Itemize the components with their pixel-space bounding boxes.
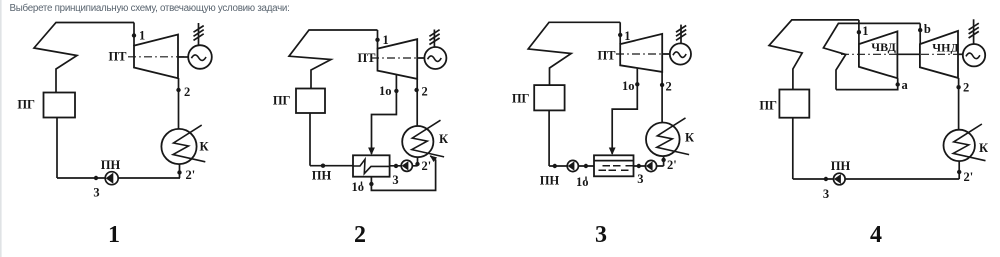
svg-text:a: a: [902, 78, 909, 92]
shaft: turbine to generator (diagram 2): [417, 57, 425, 59]
steam generator ПГ box (diagram 4): [779, 90, 809, 118]
wire: condenser drop leg (diagram 1): [179, 164, 181, 178]
HP turbine ЧВД (diagram 4): [859, 31, 898, 78]
wire: ЧНД exhaust to condenser (diagram 4): [958, 78, 960, 130]
node 1 (diagram 4): [857, 30, 861, 34]
generator (diagram 4): [958, 53, 964, 55]
svg-text:2': 2': [422, 159, 432, 173]
svg-text:ЧВД: ЧВД: [871, 40, 896, 54]
node 3 (diagram 2): [394, 164, 398, 168]
water dashes row 1 (diagram 3): [603, 165, 634, 167]
condenser К (diagram 4): [944, 124, 986, 161]
node 1о' drain (diagram 2): [369, 182, 373, 186]
condensate pump (diagram 3): [645, 160, 656, 171]
svg-text:Выберете принципиальную схему,: Выберете принципиальную схему, отвечающу…: [10, 3, 290, 14]
svg-text:2: 2: [184, 85, 190, 99]
condenser К (diagram 2): [402, 120, 444, 157]
extraction arrowhead into heater (diagram 3): [609, 148, 616, 156]
wire: main steam into ЧВД (diagram 4): [858, 20, 860, 44]
extraction line 1о to open heater (diagram 3): [612, 68, 637, 154]
steam generator ПГ box (diagram 1): [44, 93, 76, 118]
svg-text:1: 1: [139, 29, 145, 43]
open feedwater heater / mixer (diagram 3): [594, 155, 634, 176]
svg-text:2': 2': [964, 170, 974, 184]
feed pump ПН (diagram 3): [567, 160, 578, 171]
node 3 (diagram 3): [637, 164, 641, 168]
svg-text:ПГ: ПГ: [512, 92, 530, 106]
svg-text:2: 2: [666, 80, 672, 94]
node b (diagram 4): [918, 28, 922, 32]
wire: steam line into turbine (diagram 2): [377, 30, 379, 49]
node 1 (diagram 2): [375, 38, 379, 42]
node 3 (diagram 4): [824, 177, 828, 181]
node 2' (diagram 2): [415, 162, 419, 166]
node 2' (diagram 4): [957, 170, 961, 174]
steam generator ПГ box (diagram 3): [534, 85, 564, 110]
svg-text:3: 3: [595, 222, 607, 248]
svg-text:ПН: ПН: [540, 174, 560, 188]
cold reheat line ЧВД exit to reheater (diagram 4): [836, 78, 898, 89]
svg-text:ПГ: ПГ: [17, 98, 35, 112]
svg-text:К: К: [439, 132, 448, 146]
diagram 1: boiler break symbol (zigzag): [34, 23, 134, 93]
node 2 (diagram 2): [414, 88, 418, 92]
wire: ПГ down to feed line (diagram 4): [792, 118, 794, 179]
svg-text:ПГ: ПГ: [273, 94, 291, 108]
node 2' (diagram 1): [177, 170, 181, 174]
shaft centerline (diagram 2): [371, 57, 425, 59]
svg-text:К: К: [200, 140, 209, 154]
reheater break symbol (zigzag, diagram 4): [823, 23, 920, 89]
svg-text:1о: 1о: [379, 84, 392, 98]
wire: hot reheat into ЧНД (diagram 4): [919, 23, 921, 44]
shaft centerline (diagram 4): [841, 53, 964, 55]
node 2' (diagram 3): [661, 158, 665, 162]
node ПН junction (diagram 2): [321, 164, 325, 168]
wire: bottom feed line (diagram 4): [793, 178, 959, 180]
svg-text:4: 4: [870, 222, 882, 248]
svg-text:ЧНД: ЧНД: [932, 41, 959, 55]
svg-text:ПН: ПН: [101, 158, 121, 172]
svg-text:ПТ: ПТ: [108, 50, 127, 64]
feed pump ПН (diagram 4): [834, 173, 846, 185]
node 2 (diagram 4): [956, 85, 960, 89]
node 1о (diagram 3): [635, 82, 639, 86]
shaft: turbine to generator (diagram 3): [662, 53, 670, 55]
svg-text:b: b: [924, 22, 931, 36]
node 3 (diagram 1): [94, 176, 98, 180]
node 2 (diagram 3): [660, 83, 664, 87]
shaft: turbine to generator (diagram 1): [178, 56, 189, 58]
wire: ПГ down to feed line (diagram 2): [309, 113, 311, 166]
generator mount hatching (diagram 4): [969, 19, 979, 44]
shaft centerline (diagram 1): [128, 56, 189, 58]
steam turbine ПТ (diagram 2): [378, 39, 418, 79]
water dashes row 2 (diagram 3): [599, 169, 629, 171]
extraction arrowhead into heater (diagram 2): [368, 148, 375, 156]
svg-text:1: 1: [862, 24, 868, 38]
svg-text:3: 3: [93, 186, 99, 200]
svg-text:2: 2: [354, 222, 366, 248]
svg-text:К: К: [685, 131, 694, 145]
node 1о (diagram 2): [394, 89, 398, 93]
wire: steam line into turbine (diagram 1): [133, 23, 135, 47]
svg-text:3: 3: [637, 172, 643, 186]
diagram 2: boiler break symbol (zigzag): [289, 30, 378, 89]
shaft: ЧВД to ЧНД (diagram 4): [897, 53, 920, 55]
feedwater heater (surface type, diagram 2): [353, 155, 390, 176]
wire: turbine exhaust to condenser (diagram 3): [661, 72, 663, 123]
node 1 (diagram 3): [618, 33, 622, 37]
diagram 3: boiler break symbol (zigzag): [528, 22, 620, 85]
wire: condenser drop leg (diagram 4): [958, 161, 960, 179]
heater drain line to condenser (diagram 2): [371, 156, 435, 191]
svg-text:ПН: ПН: [312, 169, 332, 183]
steam generator ПГ box (diagram 2): [296, 89, 325, 114]
svg-text:1: 1: [383, 33, 389, 47]
generator mount hatching (diagram 1): [194, 23, 204, 45]
generator mount hatching (diagram 3): [676, 25, 686, 44]
steam turbine ПТ (diagram 1): [134, 35, 178, 79]
svg-text:1: 1: [108, 222, 120, 248]
wire: heater outlet to pump (diagram 2): [390, 165, 418, 167]
node before feed pump (diagram 3): [553, 164, 557, 168]
wire: feed line to heater (diagram 2): [310, 165, 353, 167]
steam turbine ПТ (diagram 3): [620, 34, 662, 72]
LP turbine ЧНД (diagram 4): [920, 31, 958, 78]
extraction line 1о from turbine (diagram 2): [372, 75, 397, 154]
node 2 (diagram 1): [176, 88, 180, 92]
wire: ПГ down to feed line (diagram 3): [548, 110, 550, 166]
diagram 4: boiler break symbol (zigzag): [769, 20, 859, 90]
wire: bottom feed line (diagram 1): [57, 177, 180, 179]
svg-text:К: К: [979, 141, 988, 155]
svg-text:1о: 1о: [622, 79, 635, 93]
feed pump ПН (diagram 1): [105, 172, 118, 185]
svg-text:2: 2: [422, 85, 428, 99]
drain arrowhead at condenser (diagram 2): [430, 155, 437, 162]
wire: turbine exhaust to condenser (diagram 2): [416, 79, 418, 126]
wire: ПГ down to feed line (diagram 1): [56, 118, 58, 179]
svg-text:ПГ: ПГ: [759, 99, 777, 113]
wire: condenser drop leg (diagram 2): [417, 157, 419, 166]
svg-text:3: 3: [823, 187, 829, 201]
svg-text:2: 2: [963, 81, 969, 95]
wire: turbine exhaust to condenser (diagram 1): [178, 78, 180, 129]
generator (diagram 2): [424, 47, 446, 69]
wire: heater to condensate pump (diagram 3): [634, 165, 664, 167]
condenser К (diagram 3): [646, 118, 689, 156]
svg-text:ПТ: ПТ: [597, 49, 616, 63]
generator mount hatching (diagram 2): [429, 30, 439, 48]
generator (diagram 3): [670, 43, 691, 64]
node 1 (diagram 1): [132, 33, 136, 37]
condensate pump (diagram 2): [401, 160, 412, 171]
wire: feed line to left pump (diagram 3): [549, 165, 594, 167]
heater internal tube zigzag (diagram 2): [353, 159, 390, 173]
svg-text:2': 2': [667, 158, 677, 172]
svg-text:2': 2': [186, 168, 196, 182]
generator (diagram 1): [188, 45, 212, 69]
svg-text:3: 3: [392, 173, 398, 187]
page left edge border: [0, 0, 2, 257]
node 1о' (diagram 3): [584, 164, 588, 168]
water level line in heater (diagram 3): [594, 160, 634, 162]
wire: condenser drop leg (diagram 3): [663, 156, 665, 166]
svg-text:1: 1: [624, 29, 630, 43]
condenser К (diagram 1): [161, 125, 205, 164]
shaft centerline (diagram 3): [616, 53, 670, 55]
wire: steam line into turbine (diagram 3): [619, 22, 621, 44]
node a (diagram 4): [896, 82, 900, 86]
svg-text:ПН: ПН: [831, 159, 851, 173]
